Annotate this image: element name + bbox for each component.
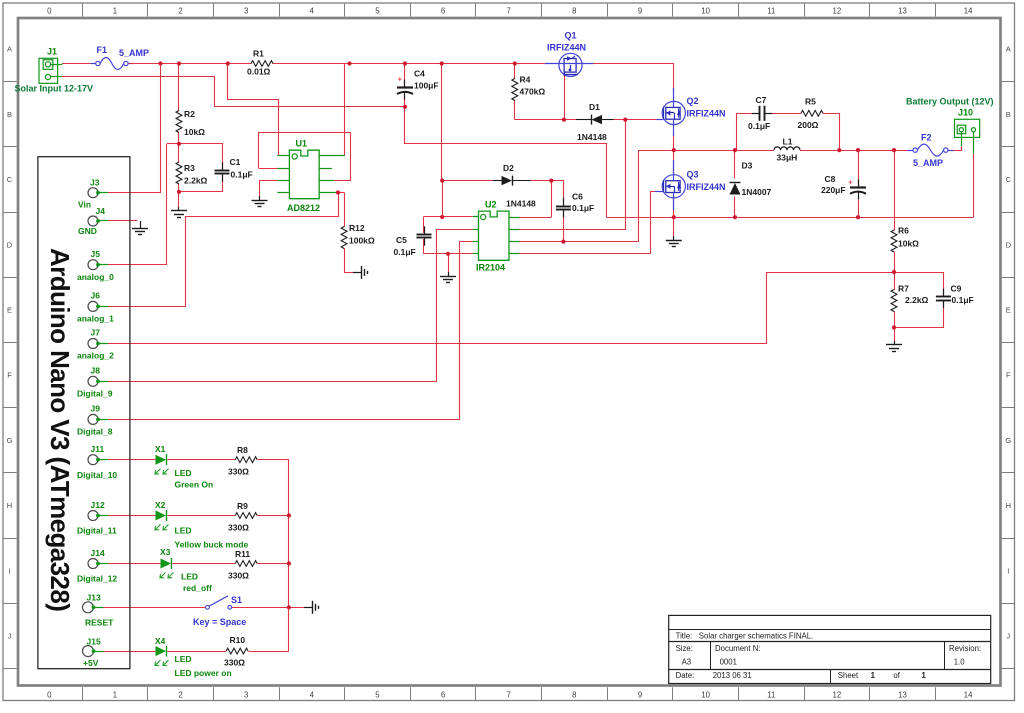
svg-text:LED: LED [175,654,192,664]
svg-text:D: D [7,240,13,249]
svg-text:AD8212: AD8212 [287,203,320,213]
svg-text:1: 1 [871,671,876,680]
svg-text:Q2: Q2 [687,96,699,106]
svg-text:2: 2 [178,6,182,15]
svg-text:C1: C1 [230,157,241,167]
svg-text:Revision:: Revision: [949,644,981,653]
svg-text:11: 11 [767,6,775,15]
svg-text:Sheet: Sheet [838,671,859,680]
svg-text:0001: 0001 [720,657,737,666]
svg-text:2.2kΩ: 2.2kΩ [905,295,929,305]
svg-text:E: E [1006,306,1011,315]
svg-text:1: 1 [113,690,117,699]
svg-text:F2: F2 [921,133,932,143]
svg-text:Green On: Green On [175,480,214,490]
svg-text:B: B [1006,110,1011,119]
svg-text:J7: J7 [91,328,101,338]
svg-text:R1: R1 [253,49,264,59]
svg-text:14: 14 [964,690,973,699]
svg-text:X3: X3 [160,547,171,557]
svg-text:9: 9 [638,6,642,15]
svg-text:J9: J9 [91,404,101,414]
svg-text:2: 2 [178,690,182,699]
svg-text:Digital_10: Digital_10 [77,470,117,480]
svg-text:0: 0 [47,6,52,15]
svg-text:5: 5 [375,6,380,15]
svg-text:6: 6 [441,6,445,15]
svg-text:red_off: red_off [183,583,212,593]
svg-text:Arduino Nano V3 (ATmega328): Arduino Nano V3 (ATmega328) [45,248,75,611]
svg-text:J8: J8 [91,366,101,376]
svg-text:Q1: Q1 [565,31,577,41]
svg-text:Date:: Date: [676,671,695,680]
svg-text:Key = Space: Key = Space [193,617,246,627]
svg-text:C8: C8 [825,174,836,184]
svg-text:4: 4 [310,690,315,699]
svg-text:G: G [1005,436,1011,445]
svg-text:0.1μF: 0.1μF [394,247,416,257]
svg-text:3: 3 [244,6,248,15]
svg-text:6: 6 [441,690,445,699]
svg-text:C7: C7 [756,95,767,105]
svg-text:X1: X1 [155,444,166,454]
svg-text:5_AMP: 5_AMP [119,48,149,58]
svg-text:330Ω: 330Ω [228,571,249,581]
svg-text:13: 13 [898,6,907,15]
svg-text:100μF: 100μF [414,81,439,91]
svg-text:10kΩ: 10kΩ [898,239,919,249]
svg-text:5_AMP: 5_AMP [913,158,943,168]
svg-text:C5: C5 [396,235,407,245]
svg-text:H: H [1006,501,1011,510]
svg-text:R3: R3 [184,163,195,173]
svg-text:J13: J13 [87,593,101,603]
svg-text:Yellow buck mode: Yellow buck mode [175,540,249,550]
svg-text:Battery Output (12V): Battery Output (12V) [906,97,994,107]
svg-text:J11: J11 [91,444,105,454]
svg-text:LED: LED [175,468,192,478]
svg-text:1N4007: 1N4007 [742,187,772,197]
svg-text:Solar charger schematics FINAL: Solar charger schematics FINAL. [699,631,813,640]
svg-text:Solar Input 12-17V: Solar Input 12-17V [15,84,94,94]
svg-text:Title:: Title: [676,631,693,640]
svg-text:B: B [7,110,12,119]
svg-text:Digital_8: Digital_8 [77,427,113,437]
svg-text:A: A [1006,45,1011,54]
svg-text:J3: J3 [90,178,100,188]
svg-text:13: 13 [898,690,907,699]
svg-text:IRFIZ44N: IRFIZ44N [687,109,726,119]
svg-text:R12: R12 [349,223,365,233]
svg-text:LED power on: LED power on [175,668,232,678]
svg-text:R8: R8 [237,445,248,455]
svg-text:C: C [1006,175,1012,184]
svg-text:Digital_12: Digital_12 [77,574,117,584]
svg-text:U1: U1 [296,139,308,149]
svg-text:1: 1 [113,6,117,15]
svg-text:IRFIZ44N: IRFIZ44N [687,182,726,192]
svg-text:A: A [7,45,12,54]
svg-text:R4: R4 [520,75,531,85]
svg-text:12: 12 [833,690,842,699]
svg-text:0: 0 [47,690,52,699]
svg-text:IR2104: IR2104 [476,263,505,273]
svg-text:+: + [398,74,403,83]
svg-text:J6: J6 [91,291,101,301]
svg-text:J15: J15 [87,637,101,647]
svg-text:1N4148: 1N4148 [506,199,536,209]
svg-text:GND: GND [78,226,97,236]
svg-text:IRFIZ44N: IRFIZ44N [547,43,586,53]
svg-text:3: 3 [244,690,248,699]
svg-text:+: + [848,177,853,186]
svg-text:D2: D2 [503,163,514,173]
svg-text:R6: R6 [898,226,909,236]
svg-text:0.1μF: 0.1μF [952,295,974,305]
svg-text:C9: C9 [951,284,962,294]
svg-text:LED: LED [175,526,192,536]
svg-text:R2: R2 [184,109,195,119]
svg-text:Digital_9: Digital_9 [77,389,113,399]
svg-text:0.1μF: 0.1μF [748,121,770,131]
svg-text:D1: D1 [589,102,600,112]
svg-text:I: I [8,566,10,575]
svg-text:330Ω: 330Ω [224,658,245,668]
svg-text:7: 7 [507,690,511,699]
svg-text:0.1μF: 0.1μF [572,203,594,213]
svg-text:of: of [893,671,900,680]
svg-text:J5: J5 [91,249,101,259]
svg-text:470kΩ: 470kΩ [520,87,546,97]
svg-text:100kΩ: 100kΩ [349,236,375,246]
svg-text:7: 7 [507,6,511,15]
svg-text:Vin: Vin [78,200,91,210]
svg-text:1: 1 [922,671,927,680]
svg-text:+5V: +5V [83,658,99,668]
svg-text:X2: X2 [155,500,166,510]
svg-text:1.0: 1.0 [954,657,966,666]
svg-text:G: G [7,436,13,445]
svg-text:10: 10 [701,6,710,15]
svg-text:2013 06 31: 2013 06 31 [713,671,752,680]
svg-text:E: E [7,306,12,315]
svg-text:LED: LED [181,572,198,582]
svg-text:12: 12 [833,6,842,15]
svg-text:R11: R11 [235,549,250,559]
svg-text:analog_1: analog_1 [77,314,114,324]
svg-text:analog_0: analog_0 [77,272,114,282]
svg-text:220μF: 220μF [821,185,846,195]
svg-text:R5: R5 [805,97,816,107]
svg-text:1N4148: 1N4148 [577,132,607,142]
svg-text:J: J [1006,632,1010,641]
svg-text:analog_2: analog_2 [77,351,114,361]
svg-text:R9: R9 [237,501,248,511]
svg-text:L1: L1 [783,137,793,147]
svg-text:14: 14 [964,6,973,15]
svg-text:J14: J14 [91,548,105,558]
svg-text:F1: F1 [97,45,108,55]
svg-text:F: F [7,371,12,380]
svg-text:Size:: Size: [676,644,693,653]
svg-text:J10: J10 [958,108,973,118]
svg-text:RESET: RESET [85,618,114,628]
svg-text:F: F [1006,371,1011,380]
svg-text:Document N:: Document N: [715,644,761,653]
svg-text:A3: A3 [682,657,692,666]
svg-text:10: 10 [701,690,710,699]
svg-text:J: J [8,632,12,641]
svg-text:C6: C6 [572,192,583,202]
svg-text:10kΩ: 10kΩ [184,127,205,137]
svg-text:8: 8 [572,6,576,15]
svg-text:D3: D3 [742,161,753,171]
svg-text:4: 4 [310,6,315,15]
svg-text:Q3: Q3 [687,170,699,180]
svg-text:I: I [1007,566,1009,575]
svg-text:U2: U2 [485,200,497,210]
svg-text:2.2kΩ: 2.2kΩ [184,176,208,186]
svg-text:J4: J4 [96,206,106,216]
svg-text:11: 11 [767,690,775,699]
svg-text:S1: S1 [231,595,242,605]
svg-text:0.1μF: 0.1μF [231,170,253,180]
svg-text:H: H [7,501,12,510]
svg-text:330Ω: 330Ω [228,523,249,533]
svg-text:8: 8 [572,690,576,699]
svg-text:200Ω: 200Ω [798,120,819,130]
svg-text:C: C [7,175,13,184]
svg-text:Digital_11: Digital_11 [77,526,117,536]
svg-text:C4: C4 [414,69,425,79]
svg-text:330Ω: 330Ω [228,467,249,477]
svg-text:5: 5 [375,690,380,699]
svg-text:J1: J1 [47,47,57,57]
svg-text:R7: R7 [898,284,909,294]
svg-text:0.01Ω: 0.01Ω [247,67,271,77]
svg-text:J12: J12 [91,500,105,510]
svg-text:D: D [1006,240,1012,249]
svg-text:R10: R10 [230,635,246,645]
svg-text:X4: X4 [155,636,166,646]
svg-text:9: 9 [638,690,642,699]
svg-text:33μH: 33μH [777,153,798,163]
